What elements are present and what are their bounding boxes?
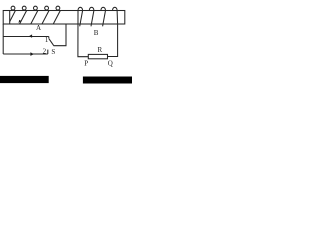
coil B left lead — [78, 11, 88, 57]
wire to contact 1 — [3, 36, 49, 38]
coil A winding diagonals — [10, 10, 61, 23]
coil A first turn vertical — [9, 11, 11, 25]
right redaction bar — [83, 77, 132, 84]
svg-text:2: 2 — [43, 47, 47, 55]
contact 2 tick — [47, 50, 49, 54]
coil B winding diagonals — [80, 11, 106, 27]
current arrowhead on first winding diagonal — [19, 20, 22, 23]
left lead of coil A — [2, 24, 4, 54]
resistor R box — [88, 54, 107, 58]
svg-text:S: S — [51, 48, 55, 56]
svg-text:P: P — [84, 60, 88, 68]
svg-text:A: A — [36, 24, 41, 32]
current arrow on wire 2 (pointing right) — [30, 52, 34, 56]
svg-text:Q: Q — [108, 59, 113, 67]
left redaction bar — [0, 76, 49, 83]
solenoid core rectangle (coil A body) — [3, 11, 125, 25]
svg-text:B: B — [94, 29, 99, 37]
contact 1 tick — [48, 37, 50, 39]
svg-text:1: 1 — [45, 36, 49, 44]
switch S lever — [49, 39, 54, 46]
switch common wire — [54, 24, 67, 46]
current arrow on wire 1 (pointing left) — [29, 34, 32, 37]
coil B right lead / wire — [108, 11, 118, 57]
wire to contact 2 — [3, 53, 48, 55]
svg-text:R: R — [98, 46, 103, 54]
coil A loops — [11, 6, 60, 10]
coil B humps — [78, 7, 117, 10]
